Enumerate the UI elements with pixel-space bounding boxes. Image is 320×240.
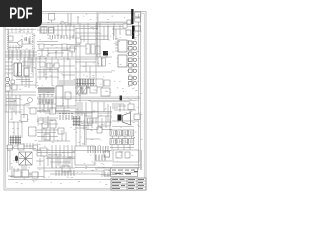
modules left xyxy=(6,85,18,91)
wires bottom region xyxy=(8,150,113,178)
AV jack column CN4 xyxy=(129,41,137,85)
capacitor grid C20-C28 xyxy=(104,130,134,157)
socket CN2b xyxy=(135,26,140,31)
pin stubs U3/CN4 xyxy=(115,42,129,71)
svg-text:PDF: PDF xyxy=(9,5,33,22)
PDF badge xyxy=(0,0,42,27)
IC U4 xyxy=(118,55,127,67)
wires right-mid region xyxy=(112,102,130,114)
filters Z3 Z4 right of U5 xyxy=(96,57,110,87)
IC U5 pin comb xyxy=(76,79,96,88)
wire (vertical at x97) xyxy=(96,12,98,31)
dark bar connector CN1 xyxy=(131,9,133,24)
resistor row R30-R36 xyxy=(56,170,74,176)
wires above CN6 xyxy=(37,112,112,114)
connector CN5 (dense pins) xyxy=(10,136,22,145)
resistor array RA1 (hatch) xyxy=(38,87,55,93)
tuner block TU1 (dashed) xyxy=(8,33,33,50)
connector CN6 (pins) xyxy=(73,116,81,126)
coil L2 and wires at top xyxy=(60,13,98,57)
resistor R20 xyxy=(88,118,93,124)
IC U2 (vertical) xyxy=(56,86,63,106)
wires linking capacitor grid xyxy=(112,127,142,171)
wires center lower region xyxy=(75,120,96,130)
modules mid-bottom xyxy=(37,148,110,176)
transformer T1 mid-left xyxy=(14,63,29,76)
wires upper-mid xyxy=(37,26,80,45)
wires (low-left loop) xyxy=(6,122,36,146)
capacitor C1 (electrolytic) xyxy=(15,156,18,162)
socket CN2c xyxy=(135,18,141,22)
speaker SP1 xyxy=(118,115,122,121)
shield box U101 xyxy=(98,13,132,22)
title block xyxy=(111,178,146,190)
module box M2 xyxy=(113,150,139,162)
wires bottom-mid xyxy=(8,155,112,180)
wires center region xyxy=(37,62,75,115)
relay box K1 xyxy=(126,30,131,35)
wires low-center xyxy=(6,122,86,149)
wires (vertical pair center-low) xyxy=(85,113,113,145)
socket CN2a xyxy=(135,12,141,17)
wires (long verticals) xyxy=(9,14,141,170)
crystal X1 xyxy=(76,86,87,95)
modules right of U2 xyxy=(65,85,110,99)
resistors above title block xyxy=(100,172,112,177)
wires below U2 xyxy=(44,93,138,121)
transformer T5 windings xyxy=(14,170,38,178)
wires bottom-center region xyxy=(46,156,75,168)
revision table xyxy=(111,168,138,177)
transistor Q1 xyxy=(17,39,22,47)
capacitor grid pin ticks xyxy=(110,131,134,150)
resistor row R10-R19 xyxy=(50,35,76,39)
wires left-mid xyxy=(5,105,37,118)
wires right-mid lower region xyxy=(112,104,136,110)
diode row D2-D6 xyxy=(60,115,72,120)
wires (vertical drops from bus) xyxy=(58,23,120,44)
modules mid-top xyxy=(39,44,75,52)
wires left-mid region xyxy=(5,57,36,85)
IC U6 pin row xyxy=(60,80,74,86)
wires assorted regions xyxy=(36,57,140,168)
wires left column region xyxy=(5,96,36,114)
wires mid-top center region xyxy=(37,48,75,59)
resistors near power area xyxy=(90,118,96,124)
connector CN3 (shaded) xyxy=(103,51,108,56)
wire bus (mid band) xyxy=(37,97,140,102)
modules mid-left low xyxy=(50,108,64,134)
wires under badge area xyxy=(5,28,36,33)
wires top-right xyxy=(75,26,126,46)
pin comb right of T6 xyxy=(88,146,108,160)
revision table text xyxy=(115,171,138,174)
IC U3 xyxy=(118,40,127,52)
wires top-center region xyxy=(48,20,108,40)
fuse F1 (dark tick) xyxy=(120,96,122,101)
transistor Q2 (driver) xyxy=(97,127,102,133)
wires inside tuner xyxy=(8,33,34,57)
wires (mid horizontal) xyxy=(5,57,112,85)
capacitors C2-C4 in tuner xyxy=(25,37,29,44)
wire bus (top horizontal rails) xyxy=(8,23,141,26)
capacitor C12 xyxy=(123,24,127,28)
resistor array RA3 xyxy=(38,94,54,97)
wires center-right low region xyxy=(96,116,112,130)
wires center-left low region xyxy=(37,116,58,128)
modules center-low xyxy=(42,112,98,140)
wires below mid band xyxy=(37,108,112,118)
capacitors C5-C8 in tuner xyxy=(10,45,19,49)
IF filter boxes Z1 Z2 xyxy=(41,27,54,33)
wires below tuner xyxy=(5,50,37,60)
wires (bottom area) xyxy=(30,145,112,180)
coil L1 in tuner xyxy=(9,36,14,41)
wires assorted regions 2 xyxy=(10,40,108,177)
wires left column extra xyxy=(5,60,58,88)
wires mid-left xyxy=(5,62,96,115)
wires above U5 xyxy=(80,62,100,79)
connector J1 (top) xyxy=(49,14,55,21)
sheet inner border xyxy=(6,13,144,188)
jacks J2 J3 (left) xyxy=(5,77,9,87)
component value labels (speckle) xyxy=(7,14,143,185)
bridge rectifier D1 xyxy=(19,152,32,165)
filters above D1 xyxy=(8,144,38,150)
sheet outer border xyxy=(4,12,146,191)
resistor array RA2 (hatch) xyxy=(38,99,54,104)
modules mid-left xyxy=(11,62,52,89)
flyback transformer T6 box xyxy=(75,146,95,165)
IF transformers T2 T3 T4 xyxy=(76,38,100,54)
module box M1 xyxy=(21,115,28,122)
transistor Q3 xyxy=(28,98,33,103)
